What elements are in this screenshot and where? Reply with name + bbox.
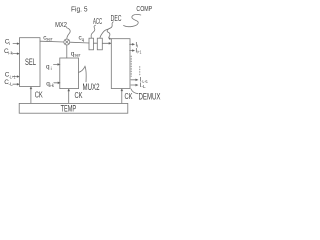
leader from ACC label to ACC block: [91, 25, 95, 38]
label q_i: [46, 63, 52, 71]
svg-text:ACC: ACC: [93, 17, 102, 26]
label C_i: [5, 39, 10, 46]
label C_-L: [4, 79, 13, 86]
label I_i+1: [135, 47, 141, 54]
svg-text:ser: ser: [46, 37, 53, 42]
svg-text:-L+1: -L+1: [9, 74, 16, 79]
svg-text:MUX2: MUX2: [83, 82, 100, 92]
svg-text:-L: -L: [141, 84, 146, 89]
svg-text:i+1: i+1: [137, 50, 141, 55]
block DEC: [97, 38, 102, 50]
input arrow C_i: [13, 43, 19, 45]
wire CK to MUX2: [68, 90, 70, 104]
wire c_q: mixer to ACC block: [70, 41, 89, 44]
svg-text:-L: -L: [9, 81, 14, 86]
svg-text:SEL: SEL: [25, 57, 36, 67]
label I_i: [135, 41, 138, 48]
wire c_ser: SEL to mixer: [40, 40, 64, 43]
svg-text:i-k: i-k: [8, 51, 13, 56]
leader from COMP label to DEMUX block: [124, 14, 141, 26]
block DEMUX: [111, 39, 130, 89]
svg-text:CK: CK: [125, 92, 133, 101]
label c_ser: [43, 34, 53, 41]
label I_-L+1: [140, 77, 149, 84]
label c_q: [79, 35, 85, 43]
wire q_ser: MUX2 to mixer: [66, 45, 68, 58]
svg-text:TEMP: TEMP: [61, 104, 77, 114]
label C_i-k: [4, 48, 13, 56]
block TEMP: [19, 103, 128, 113]
mixer cross: [65, 40, 69, 44]
svg-text:CK: CK: [35, 91, 43, 100]
leader from DEMUX label to block corner: [131, 89, 138, 94]
block ACC: [89, 38, 94, 50]
output arrow I_i: [130, 43, 134, 45]
wire ACC to DEC: [94, 42, 98, 44]
wire DEC to DEMUX: [102, 42, 110, 44]
dotted continuation line under output labels: [139, 67, 141, 77]
output arrow I_-L+1: [131, 79, 137, 81]
svg-text:i-k: i-k: [50, 83, 55, 88]
output arrow I_i+1: [130, 50, 134, 52]
block MUX2: [60, 58, 79, 89]
label q_i-k: [46, 81, 54, 89]
svg-text:MX2: MX2: [55, 20, 67, 29]
svg-text:q: q: [46, 63, 50, 70]
svg-text:i: i: [9, 41, 10, 46]
svg-text:q: q: [82, 37, 85, 42]
svg-text:CK: CK: [75, 91, 83, 100]
input arrow C_-L+1: [13, 76, 19, 78]
label C_-L+1: [5, 71, 16, 79]
wire CK to SEL: [30, 87, 32, 103]
leader from MUX2 label to block: [79, 66, 87, 82]
label q_ser: [71, 51, 81, 58]
svg-text:ser: ser: [75, 53, 81, 58]
wire q_i: SEL to MUX2: [54, 63, 60, 65]
input arrow C_i-k: [13, 53, 19, 55]
mixer MX2 circle: [64, 39, 70, 45]
input arrow C_-L: [13, 83, 19, 85]
leader from MX2 label to mixer: [66, 28, 70, 40]
wire q_i-k: SEL to MUX2: [54, 82, 60, 84]
svg-text:Fig. 5: Fig. 5: [71, 4, 88, 13]
svg-text:DEC: DEC: [111, 14, 122, 23]
svg-text:COMP: COMP: [136, 4, 152, 13]
leader from DEC label to DEC block: [100, 22, 113, 38]
output arrow I_-L: [131, 84, 137, 86]
svg-text:DEMUX: DEMUX: [139, 92, 161, 102]
svg-text:i: i: [51, 66, 52, 71]
dotted continuation line right of DEMUX: [130, 56, 132, 77]
label I_-L: [140, 82, 146, 89]
wire CK to DEMUX: [121, 89, 123, 103]
svg-text:i: i: [137, 43, 138, 48]
block SEL: [20, 38, 41, 87]
